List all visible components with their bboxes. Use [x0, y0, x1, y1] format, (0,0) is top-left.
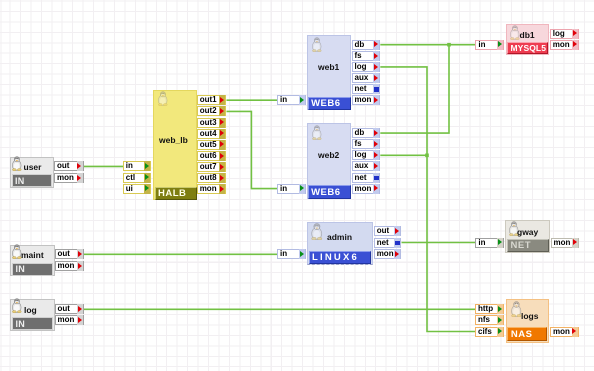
node web1 body	[307, 35, 351, 110]
wire web_lb.out1 to web1.in	[227, 99, 278, 101]
node web2 body	[307, 123, 351, 198]
port user.out	[54, 161, 84, 171]
port web2.db	[352, 128, 381, 138]
port web_lb.out4	[197, 129, 227, 139]
port logs.cifs	[475, 327, 504, 337]
port web_lb.out3	[197, 118, 227, 128]
port web_lb.out2	[197, 106, 227, 116]
node maint IN bar	[12, 263, 53, 276]
node gway label	[517, 227, 538, 237]
node db1 label	[520, 30, 535, 40]
port web2.net	[352, 173, 381, 183]
wire log.out to logs.http	[84, 308, 475, 310]
node gway body	[505, 220, 550, 253]
node logs label	[521, 311, 538, 321]
node user tux icon	[11, 156, 23, 171]
port web2.mon	[352, 184, 381, 194]
junction web db net	[447, 43, 451, 47]
node admin title bar LINUX6	[309, 251, 372, 264]
port web2.aux	[352, 161, 381, 171]
port web1.net	[352, 84, 381, 94]
node logs tux icon	[510, 301, 523, 317]
port web_lb.out6	[197, 151, 227, 161]
wire web1.log to logs.cifs	[380, 67, 475, 332]
port log.mon	[55, 315, 85, 325]
node web1 label	[318, 62, 339, 72]
node admin tux icon	[310, 223, 324, 240]
node db1 body	[506, 24, 549, 55]
node maint tux icon	[11, 244, 23, 259]
wire web_lb.out2 to web2.in	[227, 111, 278, 188]
node maint label	[21, 250, 44, 260]
junction web log net	[425, 154, 429, 158]
port web1.log	[352, 62, 381, 72]
port db1.log	[550, 29, 580, 39]
port web1.db	[352, 40, 381, 50]
node user	[10, 157, 55, 189]
port web_lb.in	[123, 161, 152, 171]
node maint	[10, 245, 55, 277]
node admin label	[327, 232, 352, 242]
node user label	[24, 162, 42, 172]
port web_lb.out7	[197, 162, 227, 172]
port db1.in	[475, 40, 504, 50]
port maint.mon	[55, 261, 85, 271]
port log.out	[55, 304, 85, 314]
node web_lb tux icon	[157, 91, 169, 106]
wire maint.out to admin.in	[84, 253, 277, 255]
node web_lb label	[159, 135, 188, 145]
port admin.in	[277, 249, 306, 259]
port gway.in	[475, 238, 504, 248]
node web1 tux icon	[311, 37, 323, 52]
node web_lb title bar HALB	[155, 187, 198, 200]
port maint.out	[55, 249, 85, 259]
port web_lb.out1	[197, 95, 227, 105]
port web2.in	[277, 184, 306, 194]
port admin.net	[374, 238, 402, 248]
node web1 title bar WEB6	[308, 97, 351, 110]
node gway tux icon	[508, 221, 520, 236]
node admin body	[307, 222, 373, 265]
port web1.mon	[352, 95, 381, 105]
port web1.aux	[352, 73, 381, 83]
port user.mon	[54, 173, 84, 183]
port web1.fs	[352, 51, 381, 61]
wire user.out to web_lb.in	[84, 165, 123, 167]
port web1.in	[277, 95, 306, 105]
node logs title bar NAS	[507, 327, 547, 341]
node log	[10, 299, 55, 331]
port web_lb.ui	[123, 184, 152, 194]
port web_lb.out5	[197, 140, 227, 150]
node web2 tux icon	[311, 125, 323, 140]
wire web1.db to db1.in	[380, 44, 475, 46]
port web_lb.out8	[197, 173, 227, 183]
node gway title bar NET	[507, 239, 549, 252]
port web_lb.ctl	[123, 173, 152, 183]
node web2 label	[318, 150, 339, 160]
port web_lb.mon	[197, 184, 227, 194]
node log label	[24, 305, 37, 315]
port admin.mon	[374, 249, 402, 259]
node user IN bar	[12, 174, 53, 187]
node logs body	[506, 299, 549, 343]
node web_lb body	[153, 90, 197, 200]
port gway.mon	[551, 238, 580, 248]
port logs.nfs	[475, 315, 504, 325]
port logs.mon	[550, 327, 579, 337]
port web2.fs	[352, 139, 381, 149]
node log tux icon	[11, 298, 23, 313]
port admin.out	[374, 226, 402, 236]
node db1 title bar MYSQL5	[507, 42, 548, 54]
port db1.mon	[550, 40, 580, 50]
wire admin.net to gway.in	[402, 242, 476, 244]
port web2.log	[352, 150, 381, 160]
node log IN bar	[12, 317, 53, 330]
wire web2.db to junction	[380, 45, 449, 133]
node db1 tux icon	[509, 25, 521, 40]
port logs.http	[475, 304, 504, 314]
wire web2.log to junction	[380, 154, 427, 156]
node web2 title bar WEB6	[308, 185, 351, 198]
